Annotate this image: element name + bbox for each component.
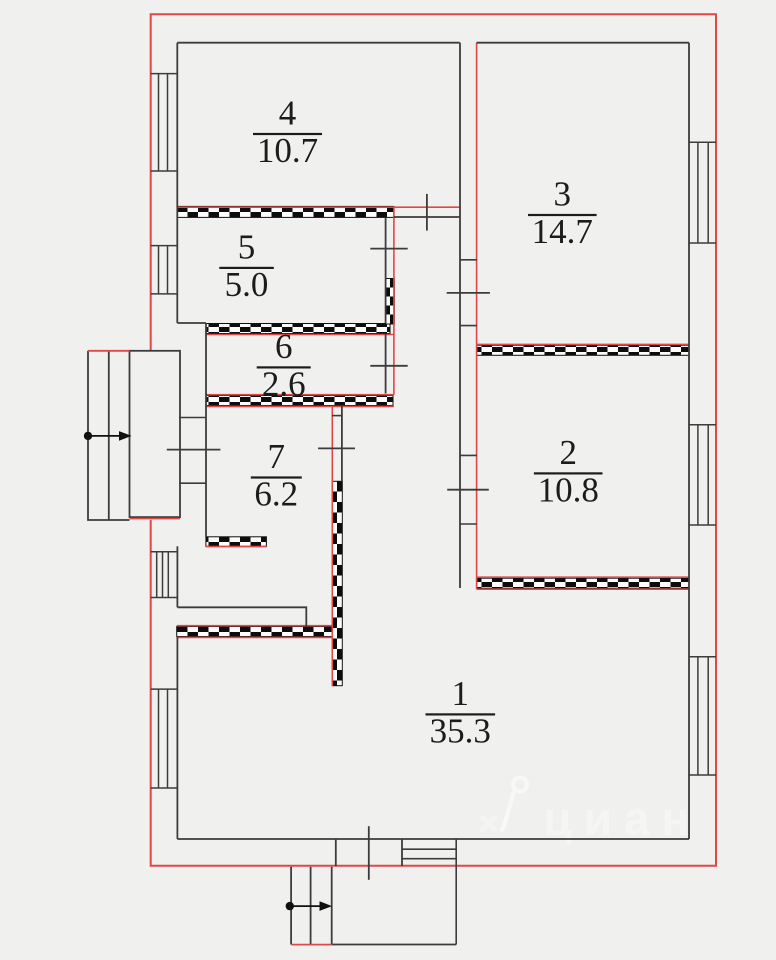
room label 2/10.8	[534, 433, 603, 510]
svg-text:циан: циан	[543, 792, 701, 845]
left porch box	[130, 351, 181, 517]
entry arrow left	[84, 431, 132, 441]
step outline room1 top-left	[177, 607, 306, 626]
svg-text:7: 7	[268, 437, 286, 476]
left wall room 1	[176, 637, 178, 839]
bottom wall	[177, 838, 689, 840]
door jambs room 2	[460, 455, 477, 524]
left wall rooms 6,7	[205, 323, 207, 537]
svg-text:2: 2	[559, 433, 577, 472]
door tick room 7	[318, 447, 355, 449]
door jambs room 3	[460, 260, 477, 326]
bottom porch red segment	[291, 944, 332, 946]
room label 4/10.7	[253, 94, 322, 171]
bottom steps	[402, 839, 456, 945]
windows left wall	[151, 74, 716, 788]
window W5 room3 right	[689, 142, 716, 243]
room label 1/35.3	[426, 674, 496, 751]
window W2 room5	[151, 246, 178, 294]
svg-text:10.8: 10.8	[538, 470, 599, 509]
window W1 room4	[151, 74, 178, 171]
svg-text:4: 4	[279, 94, 297, 133]
window W6 room2 right	[689, 425, 716, 525]
door jambs porch-room7	[179, 418, 207, 484]
door tick room 6	[370, 365, 407, 367]
corridor top wall bottom line	[394, 216, 460, 218]
door tick entry porch	[167, 449, 221, 451]
left wall upper	[176, 43, 178, 323]
left wall lower segment	[176, 546, 178, 607]
left porch bottom red	[130, 518, 181, 520]
red line above hatch room1 top	[177, 625, 332, 627]
svg-text:5: 5	[238, 227, 256, 266]
hatch wall vertical corridor/room1	[332, 481, 342, 685]
room 7 right wall	[341, 406, 343, 482]
bottom porch boxes	[291, 867, 456, 945]
svg-text:14.7: 14.7	[532, 212, 593, 251]
hatch wall 5/6 divider	[206, 324, 390, 334]
door tick room 2	[447, 489, 489, 491]
svg-text:6: 6	[275, 327, 293, 366]
window W7 room1 right	[689, 657, 716, 775]
hatch wall 3/2 divider	[477, 345, 689, 355]
right outer wall	[688, 43, 690, 839]
red line below stub hatch	[206, 546, 267, 548]
door tick bottom entrance	[368, 826, 370, 880]
door tick corridor top	[426, 194, 428, 231]
red line above hatch 3/2	[477, 343, 689, 345]
hatch wall 6/7 divider	[206, 396, 393, 406]
svg-text:35.3: 35.3	[430, 711, 491, 750]
door jamb room 7 top	[332, 415, 342, 417]
left porch stairs box	[88, 351, 130, 520]
red line top of corridor wall under room 4	[177, 206, 459, 208]
room label 6/2.6	[257, 327, 311, 404]
top wall room 3	[477, 42, 690, 44]
svg-text:3: 3	[554, 175, 572, 214]
walls	[177, 43, 689, 839]
door tick room 3	[447, 292, 490, 294]
room label 5/5.0	[219, 227, 273, 304]
room label 7/6.2	[251, 437, 302, 514]
window W3 room1 upper-left	[151, 552, 178, 598]
hatch wall vertical room5 right	[386, 279, 395, 325]
red line below hatch 5/6	[206, 334, 394, 336]
red line corridor left edge	[393, 207, 395, 395]
red line room 7 right edge	[331, 406, 333, 686]
top wall room 4	[177, 42, 460, 44]
red line above hatch 6/7	[206, 394, 394, 396]
room 5 right wall	[385, 218, 387, 324]
outer red border	[151, 14, 716, 866]
hatch wall room1 top	[177, 627, 332, 637]
entry arrow bottom	[286, 901, 332, 911]
room 5 bottom-left black line	[177, 322, 206, 324]
svg-text:2.6: 2.6	[262, 364, 306, 403]
hatch wall stub below room 7	[206, 537, 267, 547]
left porch top red	[88, 350, 130, 352]
red line rooms 3,2 left edge	[476, 43, 478, 590]
hatch wall 2/1 divider	[477, 578, 689, 588]
red line below hatch 6/7	[206, 405, 394, 407]
watermark stray mark	[481, 816, 496, 831]
bottom entrance door sides	[336, 839, 402, 866]
window W4 room1 lower-left	[151, 689, 178, 788]
door tick room 5	[370, 248, 407, 250]
red line below hatch room1 top	[177, 636, 332, 638]
svg-text:6.2: 6.2	[254, 475, 298, 514]
svg-text:5.0: 5.0	[225, 265, 269, 304]
red line below hatch 2/1	[477, 588, 689, 590]
hatch wall 4/5 divider	[177, 206, 393, 217]
red line above hatch 2/1	[477, 576, 689, 578]
watermark logo pin	[501, 778, 527, 832]
svg-text:1: 1	[452, 674, 470, 713]
svg-text:10.7: 10.7	[257, 131, 318, 170]
room 6 right wall	[385, 334, 387, 394]
corridor right wall	[459, 43, 461, 588]
room label 3/14.7	[528, 175, 597, 252]
